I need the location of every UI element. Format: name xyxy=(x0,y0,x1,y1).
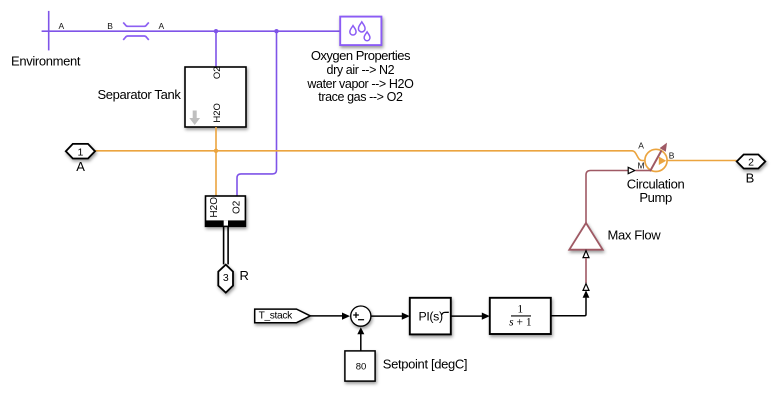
icon droplet 2 xyxy=(358,22,365,32)
port 3 hexagon (vertical) xyxy=(218,265,233,293)
junction J1 on purple wire xyxy=(214,29,218,33)
svg-text:T_stack: T_stack xyxy=(259,310,293,321)
svg-text:3: 3 xyxy=(223,272,229,284)
icon gray arrow (tank drain) xyxy=(189,111,200,126)
svg-text:O2: O2 xyxy=(212,66,223,79)
icon droplet 3 xyxy=(364,32,370,41)
arrowhead into Transfer Fcn xyxy=(482,313,490,320)
svg-text:Pump: Pump xyxy=(639,190,672,205)
svg-text:2: 2 xyxy=(748,157,754,169)
PI icon mark xyxy=(442,312,449,315)
svg-text:s + 1: s + 1 xyxy=(509,316,532,328)
open arrowhead at pump M xyxy=(628,167,635,173)
pipe block P1 (bracket symbol) xyxy=(123,22,149,40)
pump maroon arrow xyxy=(650,151,662,172)
svg-text:1: 1 xyxy=(517,303,523,315)
svg-text:B: B xyxy=(107,21,113,31)
wire: rigid double line to port 3 xyxy=(223,226,225,264)
open arrowhead mid xyxy=(583,284,589,291)
notch in black bar xyxy=(224,220,228,225)
block: Transfer Fcn 1/(s+1) xyxy=(490,298,551,334)
svg-text:H2O: H2O xyxy=(212,103,223,123)
sum block xyxy=(351,306,371,326)
svg-text:80: 80 xyxy=(356,361,367,372)
port 1 hexagon xyxy=(66,144,95,159)
port 2 hexagon xyxy=(737,155,766,169)
environment block ENV (cross symbol) xyxy=(48,11,50,51)
wire: 80 to sum xyxy=(360,334,362,351)
arrowhead into sum bottom xyxy=(357,327,364,334)
sum plus sign xyxy=(353,312,359,318)
block: Separator Tank xyxy=(185,67,246,127)
open arrowhead below Max Flow xyxy=(583,251,589,258)
svg-text:1: 1 xyxy=(77,146,83,158)
svg-text:trace gas --> O2: trace gas --> O2 xyxy=(318,90,403,104)
junction J3 orange xyxy=(214,149,218,153)
wire: purple from J2 down and left to H2O/O2 block O2 port xyxy=(237,31,277,196)
wire: maroon vertical stub xyxy=(585,258,587,283)
wire: T_stack to sum xyxy=(310,315,342,317)
svg-text:Circulation: Circulation xyxy=(627,176,685,191)
wire: black from Transfer Fcn to arrows xyxy=(551,298,586,316)
maroon stub into pump xyxy=(635,170,650,172)
svg-text:Environment: Environment xyxy=(11,53,81,68)
icon droplet 1 xyxy=(350,26,356,35)
pump circle xyxy=(645,149,667,171)
svg-text:A: A xyxy=(58,21,64,31)
svg-text:A: A xyxy=(158,21,164,31)
block: constant 80 xyxy=(345,351,375,381)
svg-text:PI(s): PI(s) xyxy=(418,310,442,324)
svg-text:B: B xyxy=(746,170,754,185)
svg-text:R: R xyxy=(240,268,249,283)
svg-text:O2: O2 xyxy=(231,200,242,214)
wire: maroon from Max Flow apex to pump M xyxy=(586,171,628,224)
wire: PI to Transfer Fcn xyxy=(451,315,482,317)
svg-text:B: B xyxy=(669,150,675,160)
svg-text:M: M xyxy=(638,160,645,170)
svg-text:Separator Tank: Separator Tank xyxy=(97,87,181,102)
filled arrowhead (signal end) xyxy=(583,290,590,298)
wire: orange from tank bottom to H2O/O2 block xyxy=(215,127,217,196)
svg-text:water vapor --> H2O: water vapor --> H2O xyxy=(306,77,414,91)
block: Oxygen Properties xyxy=(340,17,381,45)
svg-text:H2O: H2O xyxy=(209,197,220,218)
wire: purple main horizontal from Environment to Oxygen Properties xyxy=(42,30,341,32)
block: Max Flow (saturation triangle) xyxy=(569,223,602,250)
svg-text:dry air --> N2: dry air --> N2 xyxy=(327,63,395,77)
tag T_stack xyxy=(255,309,311,323)
svg-text:Setpoint [degC]: Setpoint [degC] xyxy=(383,357,467,372)
svg-text:A: A xyxy=(76,159,85,174)
wire: orange long horizontal from port 1 to pump A xyxy=(95,151,644,161)
arrowhead into PI xyxy=(402,313,410,320)
wire: orange pump B to port 2 xyxy=(667,160,737,162)
svg-text:Max Flow: Max Flow xyxy=(608,227,662,242)
junction J2 on purple wire xyxy=(274,29,278,33)
svg-text:A: A xyxy=(638,140,644,150)
pump orange triangle xyxy=(659,157,666,166)
wire: sum to PI xyxy=(371,315,402,317)
wire: purple drop to Separator Tank top port xyxy=(215,31,217,67)
block: PI(s) controller xyxy=(410,298,451,335)
arrowhead into sum xyxy=(342,313,350,320)
svg-text:Oxygen Properties: Oxygen Properties xyxy=(311,48,411,63)
block: H2O/O2 converger xyxy=(205,196,246,227)
sum minus sign xyxy=(358,319,364,321)
